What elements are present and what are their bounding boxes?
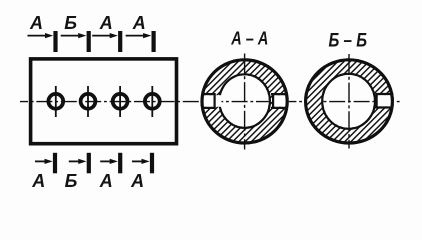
section A-A vertical centerline (244, 54, 246, 150)
svg-text:А: А (31, 171, 45, 191)
svg-text:А: А (132, 13, 146, 33)
section B-B inner bore circle (322, 74, 375, 129)
svg-text:А: А (99, 171, 113, 191)
svg-text:А – А: А – А (230, 29, 268, 49)
hole 2 centerline (87, 86, 89, 117)
top section marker 1 (A) (28, 13, 58, 52)
hole 4 centerline (151, 86, 153, 117)
hole 1 centerline (55, 86, 57, 117)
section B-B right hole channel (375, 93, 393, 109)
front view body rectangle (31, 59, 177, 144)
top section marker 2 (B) (61, 13, 91, 52)
bottom section marker 2 (B) (65, 153, 91, 191)
section A-A outer circle (202, 60, 287, 143)
hole 2 (81, 94, 96, 109)
hole 3 (113, 94, 128, 109)
section B-B ring hatch (304, 58, 394, 144)
svg-text:Б – Б: Б – Б (329, 31, 368, 52)
hole 4 (145, 94, 160, 109)
bottom section marker 1 (A) (31, 153, 57, 191)
section B-B outer circle (306, 60, 393, 143)
hole 3 centerline (119, 86, 121, 117)
bottom section marker 3 (A) (99, 153, 122, 191)
svg-text:Б: Б (65, 171, 78, 191)
svg-text:А: А (29, 13, 43, 33)
section A-A right hole channel (271, 93, 288, 109)
svg-text:А: А (130, 171, 144, 191)
top section marker 3 (A) (92, 13, 122, 52)
section A-A inner bore circle (219, 74, 270, 128)
svg-text:А: А (99, 13, 113, 33)
hole 1 (48, 94, 63, 109)
bottom section marker 4 (A) (130, 153, 154, 191)
horizontal centerline (axis through all views) (20, 101, 400, 103)
svg-text:Б: Б (64, 13, 77, 33)
section A-A ring hatch (201, 58, 289, 144)
top section marker 4 (A) (126, 13, 156, 52)
section A-A left hole channel (202, 93, 222, 109)
section B-B vertical centerline (348, 54, 350, 149)
